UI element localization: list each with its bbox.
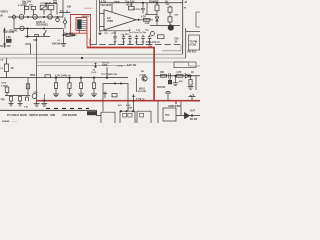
resistor R204 bbox=[168, 17, 172, 22]
capacitor C102 bbox=[53, 1, 57, 3]
connector pin P2 bbox=[128, 113, 132, 117]
svg-text:100K: 100K bbox=[114, 0, 120, 4]
wire x170 bbox=[169, 12, 171, 25]
wire vertical x28 drop bbox=[27, 78, 29, 96]
svg-text:1N4148: 1N4148 bbox=[52, 43, 61, 46]
wire vertical x27.5 bbox=[27, 29, 29, 37]
border wire x185.7 bbox=[185, 28, 187, 58]
resistor R308 on rail bbox=[45, 75, 51, 78]
ground hatch under C305 bbox=[142, 42, 145, 43]
svg-text:PB-301: PB-301 bbox=[188, 50, 197, 53]
node S bbox=[106, 77, 108, 79]
ground GND6 bbox=[173, 83, 179, 86]
node D bbox=[27, 28, 28, 29]
svg-text:CN5: CN5 bbox=[128, 108, 133, 110]
svg-text:+C5(4): +C5(4) bbox=[139, 73, 146, 76]
wire vertical x63.5 mid bbox=[63, 29, 65, 36]
wire right rail y=75.8 bbox=[155, 75, 200, 77]
svg-text:R110 220: R110 220 bbox=[0, 45, 11, 48]
wire bottom rail y=110.3 bbox=[0, 110, 101, 115]
resistor R107 bbox=[66, 34, 70, 37]
svg-text:TO PIN 7: TO PIN 7 bbox=[133, 9, 143, 11]
wire stub x33 bbox=[32, 10, 34, 15]
connector pin P1 bbox=[123, 113, 127, 117]
svg-text:1μ 2.2μ 4.7μ 10μ: 1μ 2.2μ 4.7μ 10μ bbox=[129, 31, 147, 34]
svg-text:0.047: 0.047 bbox=[1, 84, 7, 87]
resistor R303 hanging bbox=[69, 78, 71, 83]
wire x44.3 drop bbox=[43, 94, 45, 104]
ground GND11 bbox=[18, 101, 23, 106]
resistor R302 hanging bbox=[55, 78, 57, 83]
resistor R307 left bbox=[6, 85, 8, 87]
electrolytic cap row C301 bbox=[113, 31, 116, 45]
svg-text:47μ: 47μ bbox=[60, 10, 64, 13]
svg-text:SERVO BOARD: SERVO BOARD bbox=[29, 113, 48, 117]
svg-text:— —: — — bbox=[12, 121, 18, 123]
IC pins to red bus bbox=[82, 20, 87, 28]
wire y=115.5 right bbox=[176, 115, 200, 117]
pin label dashes above bottom rail bbox=[46, 107, 89, 109]
bus wire y=62 bbox=[37, 61, 189, 63]
svg-text:PCB: PCB bbox=[88, 114, 93, 116]
transistor Q101 bbox=[19, 14, 24, 19]
svg-text:3V: 3V bbox=[175, 41, 178, 43]
tick on x133.5 bbox=[132, 95, 135, 97]
capacitor C401 bbox=[169, 73, 171, 78]
wire stub x131 bbox=[130, 3, 132, 7]
connector pin P3 bbox=[140, 113, 144, 117]
svg-text:2SC1815: 2SC1815 bbox=[100, 3, 111, 7]
capacitor C503 bbox=[26, 97, 29, 101]
diode D401 bbox=[185, 74, 189, 78]
border wire x182.7 bbox=[182, 0, 184, 54]
node J on bus bbox=[81, 57, 83, 59]
node N top rail bbox=[156, 2, 157, 3]
wire op-amp output bbox=[136, 19, 153, 21]
wire x170 drop bbox=[169, 78, 171, 80]
ground hatch under C306 bbox=[148, 42, 151, 43]
transistor Q301 bbox=[142, 76, 147, 81]
transistor Q202 small circle bbox=[151, 32, 155, 36]
bus wire y=58 bbox=[0, 57, 186, 59]
node Z bbox=[126, 111, 127, 112]
wire top hook y=12.6 bbox=[59, 10, 71, 12]
transistor Q102 bbox=[33, 14, 38, 19]
diode D201 bbox=[155, 17, 158, 26]
IC driver dark block bbox=[77, 19, 81, 29]
svg-text:10K: 10K bbox=[160, 72, 165, 74]
svg-text:TO POWER SW: TO POWER SW bbox=[101, 74, 118, 76]
wire x6.5 to rail bbox=[6, 72, 8, 78]
node AB bbox=[191, 115, 193, 117]
resistor R306 bbox=[26, 84, 29, 89]
svg-text:100K: 100K bbox=[102, 65, 108, 67]
wire R303 to ground bbox=[69, 88, 71, 94]
capacitor C101 bbox=[23, 3, 27, 14]
wire stub x51 bbox=[50, 10, 52, 15]
wire y=25.5 bbox=[150, 25, 180, 27]
relay box K201 bbox=[158, 35, 165, 39]
node G bbox=[4, 29, 5, 30]
ground GND14 bbox=[103, 92, 107, 98]
wire top-left main rail y=17 bbox=[8, 16, 63, 18]
svg-text:1.2K: 1.2K bbox=[145, 23, 150, 25]
resistor R101 bbox=[25, 6, 29, 9]
wire top feed y=3.5 bbox=[45, 4, 57, 15]
svg-text:TP5: TP5 bbox=[0, 100, 5, 102]
wire x181 drop bbox=[180, 102, 182, 116]
chassis ground GND8 bbox=[165, 92, 171, 101]
resistor R105 dark box bbox=[7, 39, 12, 42]
svg-text:25V: 25V bbox=[166, 4, 170, 6]
box U501 bbox=[163, 108, 176, 121]
node B bbox=[43, 16, 44, 17]
wire vertical x136.5 bbox=[136, 78, 138, 92]
resistor R103 box bbox=[40, 5, 47, 10]
node P bbox=[69, 77, 71, 79]
ground GND3 bbox=[67, 94, 73, 97]
transistor Q103 bbox=[48, 14, 53, 19]
wire vertical x99.5 bbox=[99, 0, 101, 31]
svg-text:M101: M101 bbox=[139, 87, 146, 90]
svg-text:VIDEO: VIDEO bbox=[0, 10, 8, 13]
diode D103 bbox=[72, 34, 75, 37]
resistor R202 bbox=[156, 3, 158, 5]
svg-text:4.7K: 4.7K bbox=[177, 71, 182, 74]
node W bbox=[190, 75, 192, 77]
electrolytic cap row C303 bbox=[128, 35, 131, 45]
op-amp U101 bbox=[104, 10, 136, 30]
node F bbox=[45, 3, 46, 4]
bus wire y=65.5 bbox=[37, 65, 130, 67]
polarized cap C402 dark bbox=[168, 80, 171, 84]
svg-text:+ 2SC945: + 2SC945 bbox=[7, 30, 18, 33]
wire corner x188 bbox=[188, 62, 200, 66]
svg-text:4.7K: 4.7K bbox=[141, 16, 146, 19]
svg-text:1.5K: 1.5K bbox=[6, 37, 11, 39]
wire below connector bbox=[78, 29, 80, 33]
resistor R304 hanging bbox=[80, 78, 82, 83]
ground GND1 below x36.5 bbox=[34, 101, 40, 107]
wire vertical x96.5 bbox=[96, 0, 98, 45]
connector box CN501 bbox=[101, 112, 115, 123]
electrolytic cap row C304 bbox=[135, 35, 138, 45]
node K bbox=[95, 66, 97, 68]
capacitor C501 bbox=[10, 96, 13, 101]
svg-text:1K: 1K bbox=[191, 72, 194, 74]
red trace vertical x154 bbox=[153, 47, 155, 101]
svg-text:VTR BOARD: VTR BOARD bbox=[62, 114, 77, 117]
svg-text:+1μ: +1μ bbox=[104, 32, 108, 34]
electrolytic cap row C305 bbox=[141, 35, 144, 45]
wire y=30.8 under opamp bbox=[100, 30, 130, 32]
pcb label block dark bbox=[87, 111, 97, 115]
ground hatch under C302 bbox=[122, 42, 125, 43]
jumper component on bus bbox=[94, 63, 96, 65]
red trace long horizontal y=100.7 bbox=[36, 100, 200, 102]
wire vertical x147 bbox=[146, 3, 148, 15]
wire op-amp inputs bbox=[100, 14, 105, 27]
svg-text:2B: 2B bbox=[141, 71, 144, 73]
capacitor C201 bbox=[141, 3, 145, 14]
wire vertical x133.5 bottom mid bbox=[133, 94, 135, 111]
svg-text:10μ 16V: 10μ 16V bbox=[22, 1, 32, 4]
svg-text:4.7K: 4.7K bbox=[18, 4, 23, 7]
wire y=50.8 right bbox=[162, 45, 181, 51]
svg-text:4.7K: 4.7K bbox=[140, 98, 145, 101]
node AA bbox=[132, 111, 133, 112]
node E bbox=[43, 28, 44, 29]
wire y=14.5 branch bbox=[145, 14, 157, 16]
ground GND10 bbox=[9, 101, 14, 106]
svg-text:4558: 4558 bbox=[107, 19, 113, 23]
svg-text:+10μ: +10μ bbox=[111, 32, 117, 34]
diode D501 dark bbox=[185, 113, 190, 119]
svg-text:4.7K 1/4W ×4: 4.7K 1/4W ×4 bbox=[55, 75, 71, 78]
arrow ground x100 bbox=[98, 30, 101, 34]
wire R304 to ground bbox=[80, 88, 82, 94]
svg-text:REG: REG bbox=[165, 114, 170, 116]
svg-text:B E: B E bbox=[179, 81, 183, 83]
svg-text:4.7μ: 4.7μ bbox=[126, 104, 131, 107]
ground hatch under C303 bbox=[129, 42, 132, 43]
wire y=31.5 right bbox=[186, 31, 200, 33]
wire vertical x36.5 long bbox=[36, 37, 38, 101]
wire corner bottom-left box bbox=[25, 44, 31, 54]
svg-text:m: m bbox=[184, 8, 186, 10]
svg-text:470μ 10V x2: 470μ 10V x2 bbox=[146, 41, 160, 44]
resistor R401 bbox=[161, 74, 167, 77]
svg-text:TO CN101 MAIN: TO CN101 MAIN bbox=[7, 113, 27, 117]
svg-text:+B: +B bbox=[184, 2, 187, 4]
ground GND4 bbox=[78, 94, 84, 97]
svg-text:GND: GND bbox=[50, 115, 55, 117]
ground GND7 bbox=[188, 87, 194, 90]
resistor R201 on output bbox=[144, 18, 151, 21]
resistor R106 bbox=[35, 35, 39, 37]
svg-text:AMPLIFIER: AMPLIFIER bbox=[168, 105, 181, 108]
sub box outline left bbox=[103, 84, 128, 112]
node C bbox=[57, 16, 58, 17]
resistor R203 bbox=[169, 5, 171, 7]
svg-text:2.2μ: 2.2μ bbox=[136, 29, 141, 31]
svg-text:4.7K 1W: 4.7K 1W bbox=[127, 64, 137, 67]
svg-text:22μ 25V: 22μ 25V bbox=[64, 34, 73, 36]
electrolytic cap row C306 bbox=[148, 35, 151, 45]
svg-text:MODEL: MODEL bbox=[2, 121, 11, 123]
red trace loop around driver bbox=[71, 15, 91, 47]
connector box CN503 bbox=[137, 111, 151, 123]
node chain mid bbox=[63, 34, 64, 35]
transistor Q301 leads bbox=[143, 77, 146, 81]
bus wire y=54.2 bbox=[0, 53, 183, 55]
node V bbox=[175, 75, 177, 77]
transistor Q106 small bbox=[56, 18, 60, 22]
wire vertical x107 bbox=[106, 67, 108, 78]
wire x158 bottom right bbox=[157, 102, 159, 124]
ground GND12 bbox=[41, 104, 47, 107]
ground hatch under C304 bbox=[135, 42, 138, 43]
svg-text:IN: IN bbox=[0, 15, 3, 18]
svg-text:TO P.G.: TO P.G. bbox=[102, 63, 110, 65]
relay box K401 bbox=[174, 62, 196, 68]
ground GND2 bbox=[53, 94, 59, 97]
resistor R205 box on top rail bbox=[129, 6, 135, 10]
resistor R403 hanging bbox=[190, 76, 192, 80]
wire chain y=35 bbox=[64, 34, 77, 36]
svg-text:2SC945(E): 2SC945(E) bbox=[36, 24, 48, 27]
node U bbox=[120, 83, 121, 84]
ground GND13 bbox=[61, 44, 67, 47]
svg-text:2SB507: 2SB507 bbox=[82, 16, 91, 18]
resistor R102 bbox=[31, 6, 35, 9]
node L bbox=[138, 19, 139, 20]
ground GND5 bbox=[91, 94, 97, 97]
shield dashed line y=44.6 bbox=[90, 39, 183, 45]
wire vertical x4.5 left bbox=[4, 28, 6, 49]
svg-text:1K: 1K bbox=[11, 67, 14, 70]
red trace horizontal y=47.5 bbox=[87, 47, 155, 49]
node T bbox=[114, 83, 115, 84]
resistor R104 box bbox=[48, 5, 54, 10]
svg-text:+1μ 50V: +1μ 50V bbox=[121, 34, 130, 36]
svg-text:POWER: POWER bbox=[149, 1, 159, 4]
transistor Q501 bbox=[32, 94, 37, 99]
wire op-amp top feed bbox=[111, 3, 113, 13]
resistor R402 bbox=[177, 74, 184, 77]
wire vertical x63 bbox=[62, 0, 64, 17]
svg-text:MOTOR: MOTOR bbox=[138, 91, 147, 93]
wire x175.5 drop bbox=[175, 76, 177, 83]
transistor Q104 bbox=[20, 26, 24, 30]
resistor R305 hanging bbox=[93, 78, 95, 83]
wire top rail y=2.8 bbox=[99, 2, 183, 4]
resistor R502 small bbox=[112, 94, 117, 97]
node X bbox=[44, 100, 46, 102]
node on red line x133.5 bbox=[133, 100, 135, 102]
wire x157 mid bbox=[156, 11, 158, 17]
wire stub x44 bbox=[43, 10, 45, 15]
node Q bbox=[80, 77, 82, 79]
wire vertical x14 bbox=[13, 19, 15, 28]
node H bbox=[4, 43, 5, 44]
svg-text:OUT: OUT bbox=[190, 111, 195, 113]
transistor Q201 dark bbox=[168, 25, 173, 30]
node Y bbox=[120, 111, 121, 112]
node R bbox=[93, 77, 95, 79]
terminal box TB2 top right bbox=[196, 12, 200, 27]
node A bbox=[27, 16, 28, 17]
wire y=95.5 bottom-left bbox=[5, 95, 30, 97]
svg-text:(7×2): (7×2) bbox=[91, 71, 96, 74]
svg-text:+B 9V: +B 9V bbox=[126, 4, 133, 7]
red stub node x176 bbox=[175, 101, 177, 105]
wire x196 drop bbox=[195, 76, 197, 90]
electrolytic cap row C302 bbox=[122, 35, 125, 45]
diode D102 diamond bbox=[63, 17, 67, 29]
svg-text:560: 560 bbox=[33, 39, 38, 42]
wire drop to ground x63.5 bbox=[63, 35, 65, 44]
svg-text:8 CN3: 8 CN3 bbox=[190, 45, 197, 47]
arrow signal into node bbox=[43, 30, 46, 35]
wire main rail y=77.6 bbox=[0, 77, 128, 79]
node O bbox=[55, 77, 57, 79]
svg-text:8Ω 3W: 8Ω 3W bbox=[190, 119, 198, 121]
wire R302 to ground bbox=[55, 88, 57, 94]
connector box CN502 bbox=[120, 111, 135, 123]
red faint highlight y=8.2 bbox=[84, 7, 93, 9]
svg-text:PIN5: PIN5 bbox=[30, 75, 36, 77]
wire second rail y=28.5 bbox=[14, 28, 63, 30]
svg-text:E50: E50 bbox=[175, 38, 180, 40]
wire R305 to ground bbox=[93, 88, 95, 94]
node I bbox=[27, 36, 28, 37]
svg-text:C510: C510 bbox=[1, 82, 7, 84]
svg-text:10K: 10K bbox=[67, 7, 72, 9]
svg-text:1K: 1K bbox=[165, 1, 168, 4]
wire y=36.6 mid-left bbox=[25, 36, 50, 38]
ground hatch under C301 bbox=[114, 42, 117, 43]
diode D101 diamond bbox=[12, 15, 16, 19]
svg-text:2SC945: 2SC945 bbox=[157, 86, 166, 89]
chassis ground GND9 bbox=[189, 94, 196, 101]
capacitor C502 bbox=[19, 96, 22, 101]
resistor R103 diagonal mark bbox=[41, 6, 47, 10]
resistor R301 left column bbox=[6, 58, 8, 64]
svg-text:C 100: C 100 bbox=[117, 66, 124, 68]
svg-text:TO PIN: TO PIN bbox=[190, 42, 198, 44]
terminal box TB1 bbox=[189, 35, 200, 50]
node M top rail bbox=[142, 2, 143, 3]
